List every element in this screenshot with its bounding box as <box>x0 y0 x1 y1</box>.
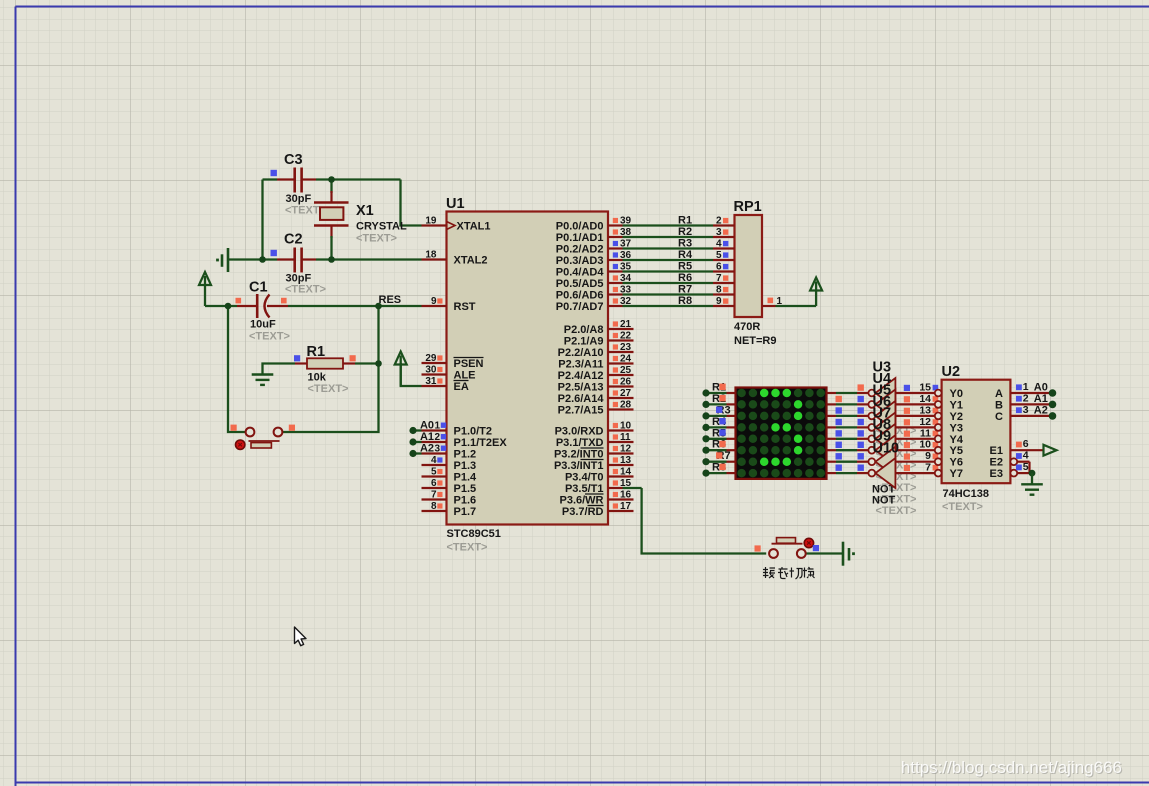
capacitor C2 <box>277 258 295 260</box>
svg-text:P2.4/A12: P2.4/A12 <box>558 370 604 382</box>
svg-text:P3.5/T1: P3.5/T1 <box>565 483 604 495</box>
svg-text:P0.0/AD0: P0.0/AD0 <box>556 221 604 233</box>
svg-text:Y1: Y1 <box>950 399 963 411</box>
svg-text:10: 10 <box>919 439 931 451</box>
wire NOT U6 input to U2 Y3 <box>895 426 934 428</box>
svg-text:R6: R6 <box>678 272 692 284</box>
svg-text:14: 14 <box>620 467 632 478</box>
U1 pin 10 P3.0/RXD <box>608 429 634 431</box>
RP1 pin 2 <box>713 224 735 226</box>
svg-text:2: 2 <box>1023 392 1029 404</box>
RP1 pin 6 <box>713 270 735 272</box>
wire NOT U5 input to U2 Y2 <box>895 415 934 417</box>
svg-text:3: 3 <box>716 227 722 238</box>
U1 pin 7 P1.6 <box>422 498 447 500</box>
U1 pin 22 P2.1/A9 <box>608 339 634 341</box>
svg-text:1: 1 <box>435 421 441 432</box>
inverter U8 <box>875 435 895 465</box>
svg-text:C2: C2 <box>284 232 303 248</box>
svg-text:P0.6/AD6: P0.6/AD6 <box>556 290 604 302</box>
svg-text:5: 5 <box>716 250 722 261</box>
svg-text:30pF: 30pF <box>286 193 312 205</box>
svg-text:P1.5: P1.5 <box>454 483 477 495</box>
svg-text:RP1: RP1 <box>734 199 762 215</box>
U1 pin 24 P2.3/A11 <box>608 362 634 364</box>
svg-text:P3.0/RXD: P3.0/RXD <box>555 426 604 438</box>
svg-text:P1.7: P1.7 <box>454 506 477 518</box>
svg-text:P0.2/AD2: P0.2/AD2 <box>556 244 604 256</box>
inverter U3 <box>875 378 895 408</box>
svg-text:3: 3 <box>435 444 441 455</box>
U1 pin 18 XTAL2 <box>422 258 447 260</box>
U1 pin 29 PSEN <box>422 362 447 364</box>
svg-text:4: 4 <box>716 239 722 250</box>
svg-text:C1: C1 <box>249 280 268 296</box>
U1 pin 27 P2.6/A14 <box>608 397 634 399</box>
U1 pin 35 P0.4/AD4 <box>608 270 623 272</box>
svg-text:A1: A1 <box>1034 393 1048 405</box>
wire P0.0 to RP1 (net R1) <box>623 224 714 226</box>
junction node C1 left <box>225 303 232 310</box>
U1 pin 25 P2.4/A12 <box>608 374 634 376</box>
svg-text:22: 22 <box>620 331 632 342</box>
svg-text:Y6: Y6 <box>950 457 963 469</box>
svg-text:16: 16 <box>620 490 632 501</box>
svg-text:P1.1/T2EX: P1.1/T2EX <box>454 437 508 449</box>
svg-text:P1.0/T2: P1.0/T2 <box>454 426 493 438</box>
U1 pin 17 P3.7/RD <box>608 510 634 512</box>
svg-text:PSEN: PSEN <box>454 358 484 370</box>
svg-text:5: 5 <box>431 467 437 478</box>
svg-text:U1: U1 <box>446 196 465 212</box>
U2 pin 3 C <box>1010 415 1049 417</box>
U1 pin 14 P3.4/T0 <box>608 475 634 477</box>
svg-text:9: 9 <box>716 296 722 307</box>
matrix row pin left R5 <box>706 438 727 440</box>
svg-text:13: 13 <box>919 404 931 416</box>
svg-text:P2.0/A8: P2.0/A8 <box>564 324 604 336</box>
wire P0.5 to RP1 (net R6) <box>623 282 714 284</box>
svg-text:E1: E1 <box>990 445 1003 457</box>
junction node R1 right <box>375 360 382 367</box>
svg-text:P3.3/INT1: P3.3/INT1 <box>554 460 604 472</box>
svg-text:R2: R2 <box>678 226 692 238</box>
U1 pin 39 P0.0/AD0 <box>608 224 623 226</box>
power terminal (VCC) left of C1 <box>204 276 206 306</box>
svg-text:8: 8 <box>431 501 437 512</box>
resistor pack RP1 <box>735 215 763 317</box>
inverter U4 <box>875 389 895 419</box>
svg-text:P1.2: P1.2 <box>454 449 477 461</box>
U1 pin 32 P0.7/AD7 <box>608 305 623 307</box>
U2 pin Y1 <box>935 401 942 408</box>
U2 pin 6 E1 <box>1010 449 1043 451</box>
inverter U7 <box>875 424 895 454</box>
svg-text:A0: A0 <box>1034 382 1048 394</box>
svg-text:XTAL1: XTAL1 <box>457 221 491 233</box>
ground terminal right of mode switch <box>842 542 845 566</box>
RP1 pin 3 <box>713 236 735 238</box>
svg-text:U2: U2 <box>942 364 961 380</box>
push button (reset) <box>246 428 255 437</box>
svg-text:P1.4: P1.4 <box>454 472 478 484</box>
RP1 pin 9 <box>713 305 735 307</box>
svg-text:EA: EA <box>454 381 469 393</box>
U1 pin 16 P3.6/WR <box>608 498 634 500</box>
wire matrix row 2 to NOT gate <box>827 403 837 405</box>
svg-text:ALE: ALE <box>454 370 476 382</box>
matrix row pin left R3 <box>706 415 727 417</box>
svg-text:10: 10 <box>620 421 632 432</box>
svg-text:2: 2 <box>435 432 441 443</box>
U1 pin 28 P2.7/A15 <box>608 408 634 410</box>
svg-text:19: 19 <box>425 216 437 227</box>
wire matrix row 6 to NOT gate <box>827 449 837 451</box>
svg-text:6: 6 <box>431 478 437 489</box>
matrix row pin left R7 <box>706 461 727 463</box>
power terminal at RP1 pin1 <box>815 282 817 307</box>
U1 pin 19 XTAL1 <box>422 224 447 226</box>
wire P0.3 to RP1 (net R4) <box>623 259 714 261</box>
op U2 74HC138 body <box>942 380 1011 484</box>
svg-text:28: 28 <box>620 400 632 411</box>
svg-text:P0.4/AD4: P0.4/AD4 <box>556 267 605 279</box>
wire: left vertical C3-C2 <box>261 180 263 260</box>
wire matrix row 5 to NOT gate <box>827 438 837 440</box>
wire: C3 row to XTAL1 <box>263 178 278 180</box>
RP1 pin 5 <box>713 259 735 261</box>
U1 pin 2 P1.1/T2EX <box>422 441 447 443</box>
svg-text:P2.1/A9: P2.1/A9 <box>564 336 604 348</box>
inverter U10 <box>875 458 895 488</box>
U1 pin 11 P3.1/TXD <box>608 441 634 443</box>
matrix row pin left R1 <box>706 392 727 394</box>
svg-text:R1: R1 <box>678 215 692 227</box>
junction node crystal bottom <box>328 256 335 263</box>
svg-text:7: 7 <box>431 490 437 501</box>
8x8 LED dot matrix body <box>736 388 827 479</box>
op U1 STC89C51 body <box>447 212 609 525</box>
U1 pin 31 EA <box>422 385 447 387</box>
svg-text:<TEXT>: <TEXT> <box>285 284 326 296</box>
svg-text:P0.1/AD1: P0.1/AD1 <box>556 232 604 244</box>
svg-text:P3.6/WR: P3.6/WR <box>559 495 603 507</box>
wire matrix row 4 to NOT gate <box>827 426 837 428</box>
svg-text:B: B <box>995 399 1003 411</box>
svg-text:A0: A0 <box>420 420 434 432</box>
svg-text:P3.7/RD: P3.7/RD <box>562 506 604 518</box>
junction node C3/C2 left <box>259 256 266 263</box>
svg-text:7: 7 <box>716 273 722 284</box>
U1 pin 36 P0.3/AD3 <box>608 259 623 261</box>
LED dots <box>737 389 746 398</box>
svg-text:https://blog.csdn.net/ajing666: https://blog.csdn.net/ajing666 <box>901 758 1122 777</box>
wire matrix row 3 to NOT gate <box>827 415 837 417</box>
svg-text:STC89C51: STC89C51 <box>447 528 501 540</box>
wire: EA to power arrow <box>401 363 422 386</box>
U1 pin 3 P1.2 <box>422 452 447 454</box>
svg-text:P2.7/A15: P2.7/A15 <box>558 405 604 417</box>
wire P0.6 to RP1 (net R7) <box>623 293 714 295</box>
capacitor C1 (electrolytic) <box>237 305 257 307</box>
svg-text:X1: X1 <box>356 203 374 219</box>
svg-text:P3.4/T0: P3.4/T0 <box>565 472 604 484</box>
wire NOT U9 input to U2 Y6 <box>895 461 934 463</box>
sheet border (blue) <box>16 6 1149 8</box>
U2 pin Y0 <box>935 390 942 397</box>
RP1 pin 4 <box>713 247 735 249</box>
svg-text:Y5: Y5 <box>950 445 963 457</box>
U1 pin 13 P3.3/INT1 <box>608 464 634 466</box>
matrix row pin left R4 <box>706 426 727 428</box>
U1 pin 34 P0.5/AD5 <box>608 282 623 284</box>
svg-text:9: 9 <box>431 296 437 307</box>
junction node crystal top <box>328 176 335 183</box>
wire P3.5/T1 to mode switch <box>623 487 642 489</box>
svg-text:Y2: Y2 <box>950 411 963 423</box>
U1 pin 12 P3.2/INT0 <box>608 452 634 454</box>
resistor R1 <box>295 362 307 364</box>
svg-text:P3.2/INT0: P3.2/INT0 <box>554 449 604 461</box>
mouse cursor <box>295 627 307 646</box>
wire P0.1 to RP1 (net R2) <box>623 236 714 238</box>
svg-text:470R: 470R <box>734 321 760 333</box>
terminal dots A0 A1 A2 (P1.0-P1.2) <box>413 429 422 431</box>
wire NOT U8 input to U2 Y5 <box>895 449 934 451</box>
svg-text:R1: R1 <box>307 344 326 360</box>
junction E2/E3 <box>1029 470 1036 477</box>
U1 pin 38 P0.1/AD1 <box>608 236 623 238</box>
RP1 pin 1 to power <box>762 305 776 307</box>
svg-text:23: 23 <box>620 342 632 353</box>
inverter U6 <box>875 412 895 442</box>
svg-text:P2.5/A13: P2.5/A13 <box>558 382 604 394</box>
inverter U9 <box>875 447 895 477</box>
svg-text:P0.3/AD3: P0.3/AD3 <box>556 255 604 267</box>
junction node RES <box>375 303 382 310</box>
svg-text:6: 6 <box>1023 438 1029 450</box>
crystal X1 <box>314 201 349 203</box>
U1 pin 30 ALE <box>422 373 447 375</box>
svg-text:<TEXT>: <TEXT> <box>249 331 290 343</box>
U1 pin 6 P1.5 <box>422 487 447 489</box>
wire matrix row 7 to NOT gate <box>827 461 837 463</box>
capacitor C3 <box>277 178 295 180</box>
wire NOT U10 input to U2 Y7 <box>895 472 934 474</box>
wire: vertical RES net down to R1 and button <box>377 306 379 364</box>
svg-text:E2: E2 <box>990 457 1003 469</box>
svg-text:NOT: NOT <box>872 495 896 507</box>
svg-text:74HC138: 74HC138 <box>943 488 989 500</box>
svg-text:Y3: Y3 <box>950 422 963 434</box>
ground under U2 <box>1021 483 1043 485</box>
svg-text:P2.3/A11: P2.3/A11 <box>558 359 603 371</box>
U1 pin 15 P3.5/T1 <box>608 487 623 489</box>
svg-text:R4: R4 <box>678 249 693 261</box>
svg-text:24: 24 <box>620 354 632 365</box>
U1 pin 21 P2.0/A8 <box>608 328 634 330</box>
U1 pin 23 P2.2/A10 <box>608 351 634 353</box>
wire NOT U4 input to U2 Y1 <box>895 403 934 405</box>
matrix row pin left R6 <box>706 449 727 451</box>
svg-text:<TEXT>: <TEXT> <box>356 233 397 245</box>
svg-text:30: 30 <box>425 365 437 376</box>
svg-text:U10: U10 <box>873 441 900 457</box>
svg-text:RES: RES <box>379 294 402 306</box>
svg-text:12: 12 <box>620 444 632 455</box>
wire: crystal to C3 node <box>330 180 332 194</box>
U2 pin 2 B <box>1010 403 1049 405</box>
U1 pin 8 P1.7 <box>422 510 447 512</box>
svg-text:P1.3: P1.3 <box>454 460 477 472</box>
svg-text:R5: R5 <box>678 261 692 273</box>
power terminal (VCC) at EA <box>400 356 402 387</box>
svg-text:8: 8 <box>716 285 722 296</box>
wire matrix row 8 to NOT gate <box>827 472 837 474</box>
svg-text:A2: A2 <box>420 443 434 455</box>
svg-text:<TEXT>: <TEXT> <box>876 505 917 517</box>
svg-text:P2.6/A14: P2.6/A14 <box>558 393 605 405</box>
inverter U5 <box>875 401 895 431</box>
wire P0.4 to RP1 (net R5) <box>623 270 714 272</box>
U2 pin Y4 <box>935 435 942 442</box>
matrix row pin left R8 <box>706 472 727 474</box>
svg-text:P0.5/AD5: P0.5/AD5 <box>556 278 604 290</box>
svg-text:2: 2 <box>716 216 722 227</box>
svg-text:1: 1 <box>1023 381 1029 393</box>
svg-text:7: 7 <box>925 462 931 474</box>
wire: RST row <box>205 305 237 307</box>
svg-text:P3.1/TXD: P3.1/TXD <box>556 437 604 449</box>
svg-text:26: 26 <box>620 377 632 388</box>
svg-text:27: 27 <box>620 388 632 399</box>
push button (mode switch) <box>806 552 843 554</box>
svg-text:13: 13 <box>620 455 632 466</box>
U2 pin Y2 <box>935 413 942 420</box>
wire NOT U3 input to U2 Y0 <box>895 392 934 394</box>
svg-text:10k: 10k <box>308 372 327 384</box>
ground under R1 <box>252 373 274 375</box>
svg-text:25: 25 <box>620 365 632 376</box>
wire: C2/XTAL2 row <box>228 258 277 260</box>
label mode switch (模式切换) drawn as strokes <box>763 567 815 579</box>
U1 pin 9 RST <box>422 305 447 307</box>
svg-text:31: 31 <box>425 376 437 387</box>
U2 pin Y5 <box>935 447 942 454</box>
svg-text:17: 17 <box>620 501 632 512</box>
U1 pin 33 P0.6/AD6 <box>608 293 623 295</box>
svg-text:XTAL2: XTAL2 <box>454 255 488 267</box>
U2 pin Y3 <box>935 424 942 431</box>
svg-text:9: 9 <box>925 450 931 462</box>
U2 pin Y6 <box>935 458 942 465</box>
svg-text:E3: E3 <box>990 468 1003 480</box>
U2 pin 4 E2 <box>1010 458 1017 465</box>
svg-text:5: 5 <box>1023 461 1029 473</box>
ground terminal left of C2 row <box>227 248 230 272</box>
svg-text:4: 4 <box>431 455 437 466</box>
RP1 pin 8 <box>713 293 735 295</box>
svg-text:12: 12 <box>919 416 931 428</box>
U2 pin 5 E3 <box>1010 470 1017 477</box>
wire: crystal to C2 node <box>330 226 332 239</box>
svg-text:A2: A2 <box>1034 404 1048 416</box>
U2 pin 1 A <box>1010 392 1049 394</box>
svg-text:11: 11 <box>620 432 631 443</box>
svg-text:<TEXT>: <TEXT> <box>447 542 488 554</box>
svg-text:A1: A1 <box>420 431 434 443</box>
matrix row pin left R2 <box>706 403 727 405</box>
U1 pin 5 P1.4 <box>422 475 447 477</box>
XTAL1 clock chevron <box>447 222 456 230</box>
svg-text:21: 21 <box>620 319 632 330</box>
wire P0.7 to RP1 (net R8) <box>623 305 714 307</box>
svg-text:P0.7/AD7: P0.7/AD7 <box>556 301 604 313</box>
wire: R1 left to ground <box>263 364 296 375</box>
svg-text:RST: RST <box>454 301 476 313</box>
U2 pin Y7 <box>935 470 942 477</box>
svg-text:C: C <box>995 411 1003 423</box>
svg-text:NET=R9: NET=R9 <box>734 335 777 347</box>
svg-text:18: 18 <box>425 250 437 261</box>
wire matrix row 1 to NOT gate <box>827 392 837 394</box>
RP1 pin 7 <box>713 282 735 284</box>
svg-text:A: A <box>995 388 1003 400</box>
svg-text:3: 3 <box>1023 404 1029 416</box>
svg-text:<TEXT>: <TEXT> <box>308 383 349 395</box>
wire to ground <box>1031 473 1033 484</box>
U1 pin 37 P0.2/AD2 <box>608 247 623 249</box>
wire P0.2 to RP1 (net R3) <box>623 247 714 249</box>
svg-text:P1.6: P1.6 <box>454 495 477 507</box>
svg-text:CRYSTAL: CRYSTAL <box>356 221 407 233</box>
svg-text:<TEXT>: <TEXT> <box>942 501 983 513</box>
svg-text:Y7: Y7 <box>950 468 963 480</box>
svg-text:11: 11 <box>920 427 931 439</box>
svg-text:Y4: Y4 <box>950 434 964 446</box>
svg-text:29: 29 <box>425 353 437 364</box>
svg-text:R3: R3 <box>678 238 692 250</box>
svg-text:10uF: 10uF <box>250 319 276 331</box>
U1 pin 26 P2.5/A13 <box>608 385 634 387</box>
wire: vertical from C1 node down to button <box>228 306 245 432</box>
U1 pin 1 P1.0/T2 <box>422 429 447 431</box>
svg-text:1: 1 <box>777 296 783 307</box>
svg-text:P2.2/A10: P2.2/A10 <box>558 347 604 359</box>
U1 pin 4 P1.3 <box>422 464 447 466</box>
svg-text:6: 6 <box>716 262 722 273</box>
svg-text:C3: C3 <box>284 152 303 168</box>
svg-text:R8: R8 <box>678 295 692 307</box>
svg-text:14: 14 <box>919 393 931 405</box>
wire NOT U7 input to U2 Y4 <box>895 438 934 440</box>
svg-text:Y0: Y0 <box>950 388 963 400</box>
svg-text:R7: R7 <box>678 284 692 296</box>
svg-text:15: 15 <box>919 382 931 394</box>
svg-text:4: 4 <box>1023 450 1029 462</box>
